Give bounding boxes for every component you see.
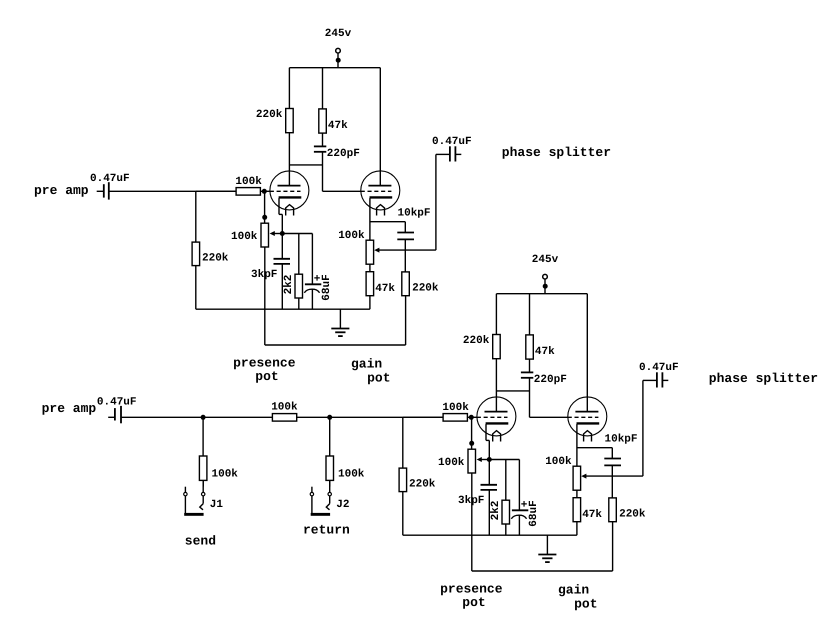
svg-text:100k: 100k xyxy=(338,469,365,481)
svg-text:J1: J1 xyxy=(210,499,224,511)
svg-text:0.47uF: 0.47uF xyxy=(90,173,130,185)
svg-text:pre amp: pre amp xyxy=(42,401,97,416)
svg-text:return: return xyxy=(303,523,350,538)
svg-text:0.47uF: 0.47uF xyxy=(97,397,137,409)
svg-text:100k: 100k xyxy=(271,402,298,414)
svg-text:100k: 100k xyxy=(212,469,239,481)
svg-text:pre amp: pre amp xyxy=(34,183,89,198)
svg-text:J2: J2 xyxy=(336,499,349,511)
svg-text:send: send xyxy=(185,534,216,549)
